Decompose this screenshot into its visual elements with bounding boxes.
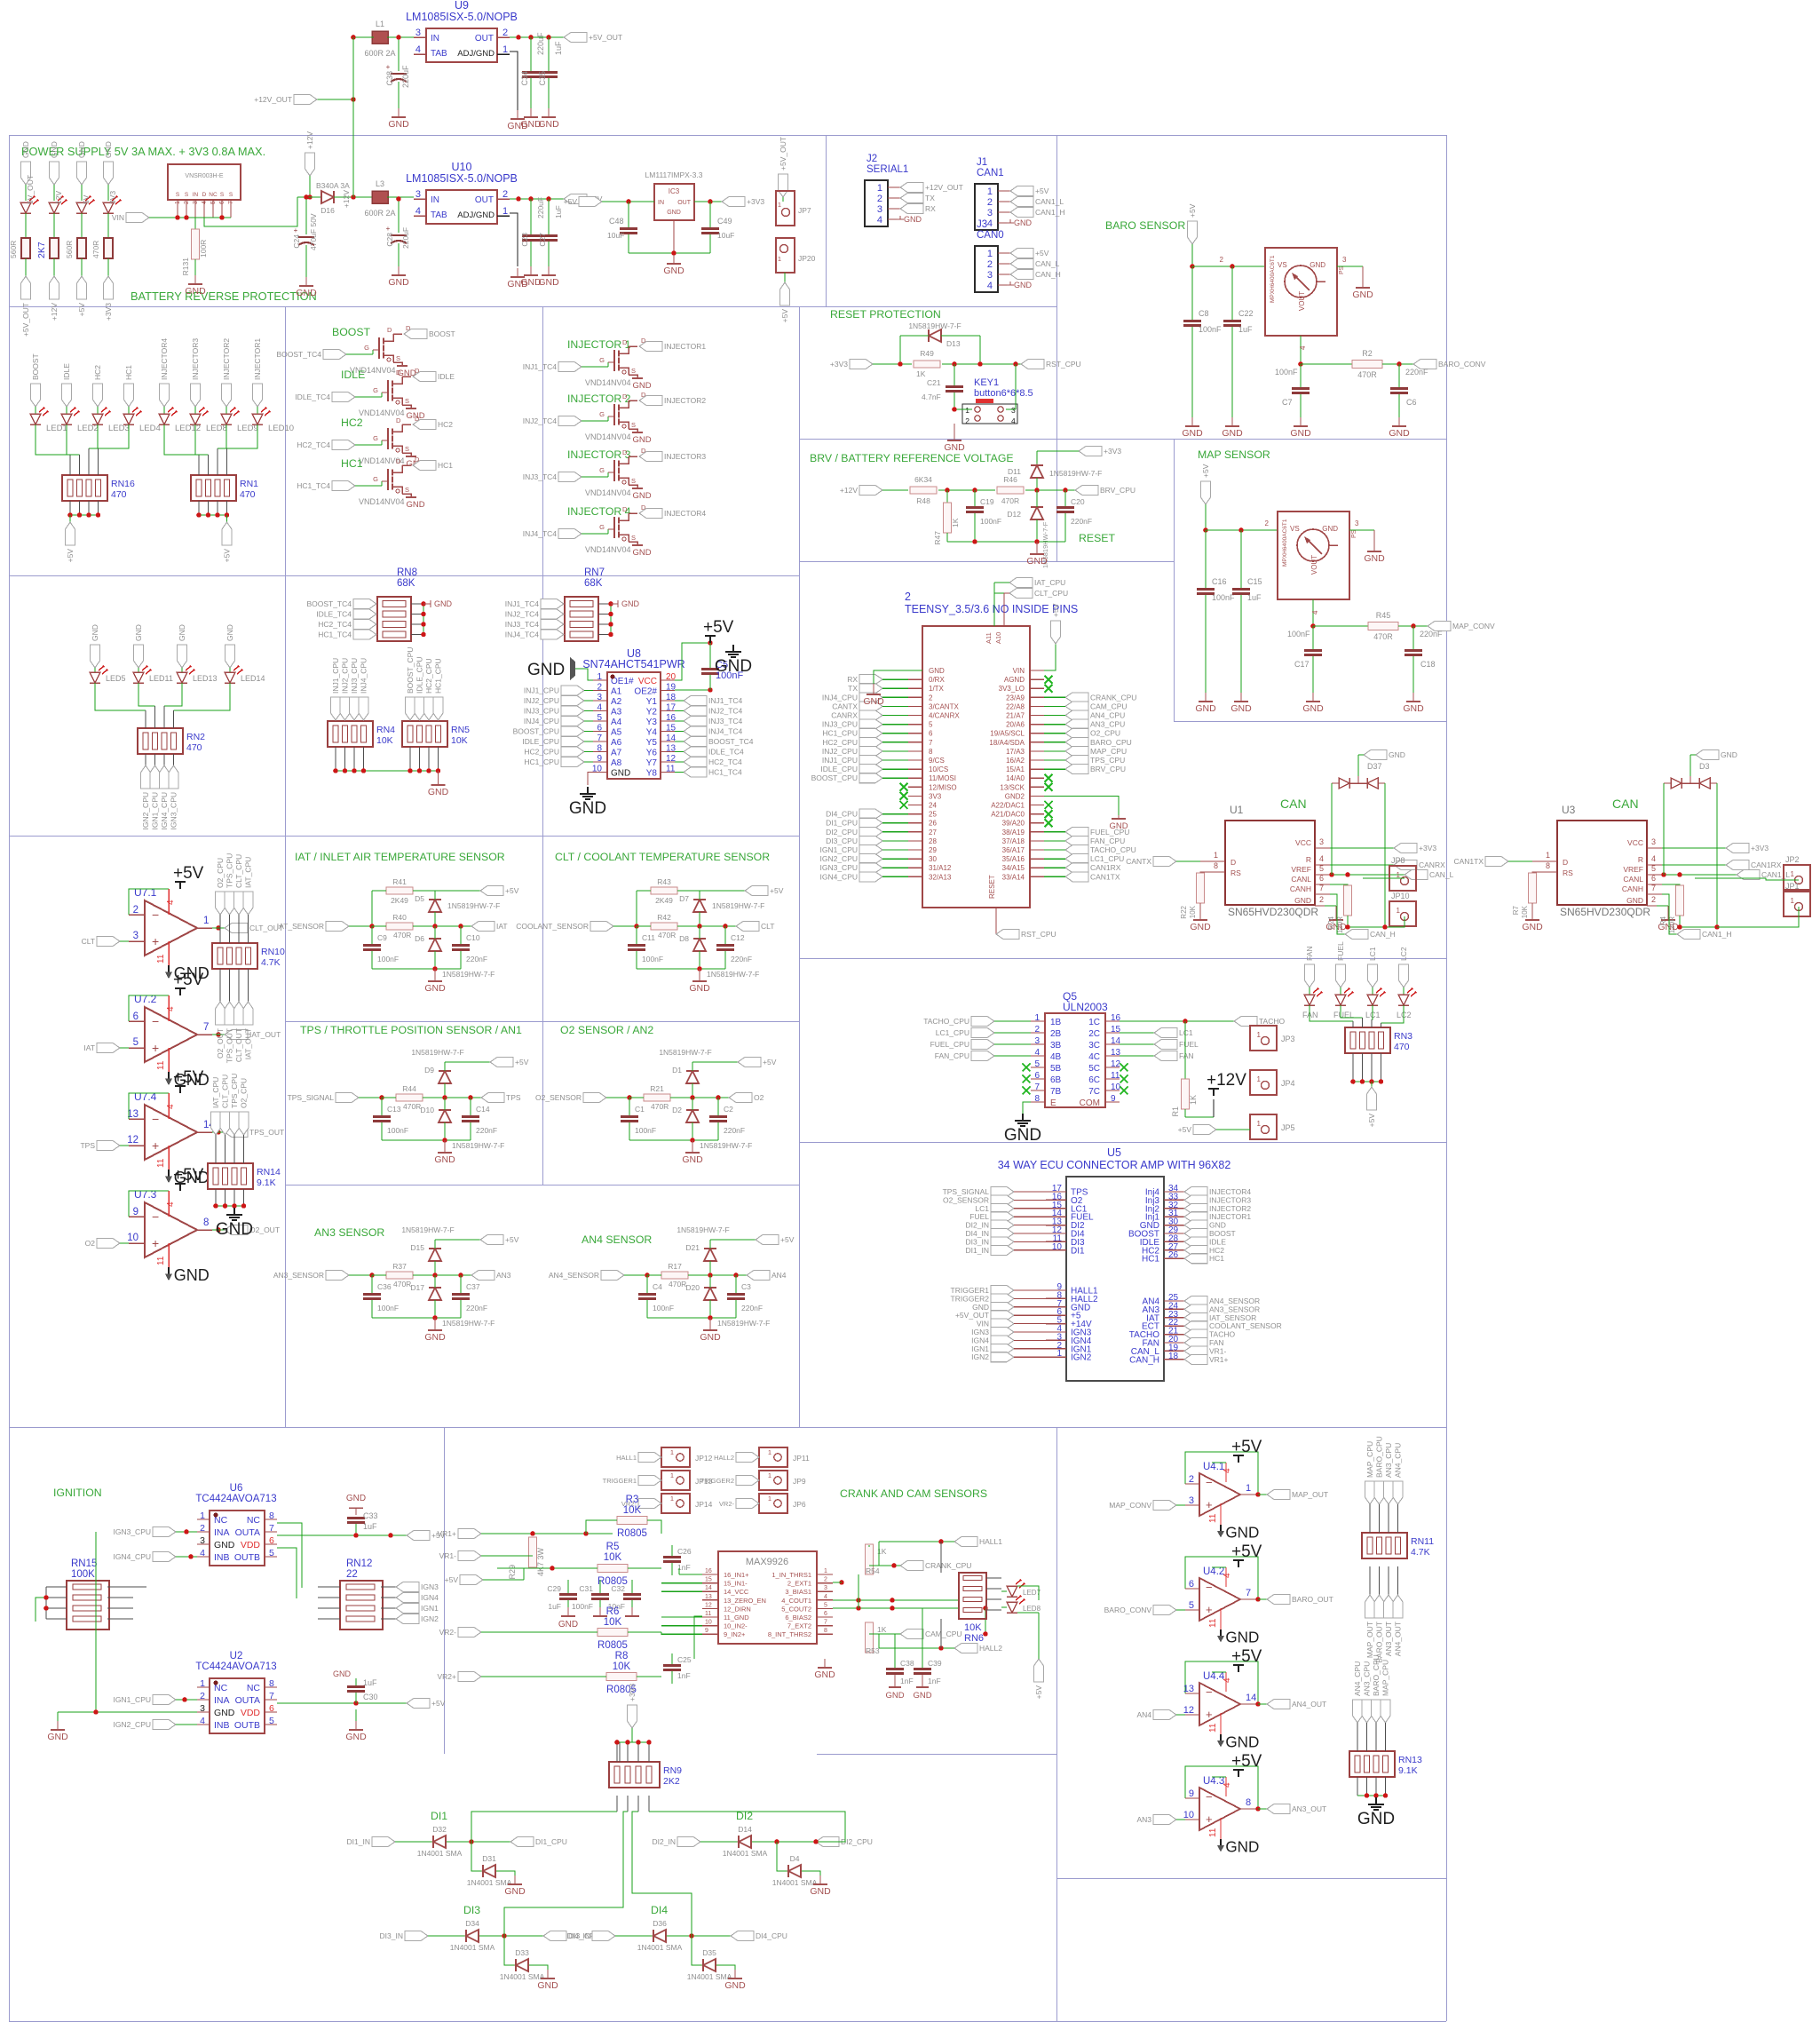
- svg-text:D: D: [396, 369, 401, 377]
- svg-text:10/CS: 10/CS: [929, 765, 948, 773]
- svg-text:PS: PS: [1351, 529, 1357, 538]
- svg-text:CLT: CLT: [761, 922, 774, 931]
- svg-text:RN1: RN1: [240, 479, 258, 489]
- svg-text:4: 4: [824, 1594, 827, 1600]
- svg-text:S: S: [405, 445, 409, 453]
- svg-text:1: 1: [987, 186, 993, 197]
- svg-text:+: +: [386, 63, 391, 71]
- svg-text:IGN3_CPU: IGN3_CPU: [170, 792, 178, 830]
- svg-text:IDLE: IDLE: [62, 363, 71, 380]
- svg-text:INJ4_TC4: INJ4_TC4: [708, 727, 743, 736]
- svg-text:7: 7: [228, 201, 234, 204]
- svg-text:CRANK_CPU: CRANK_CPU: [925, 1561, 971, 1570]
- svg-text:JP1: JP1: [1785, 882, 1800, 891]
- svg-text:4: 4: [1311, 610, 1319, 615]
- svg-text:INJ2_TC4: INJ2_TC4: [708, 707, 743, 716]
- svg-text:C39: C39: [928, 1659, 942, 1668]
- svg-text:13/SCK: 13/SCK: [1000, 783, 1025, 791]
- svg-text:26: 26: [929, 820, 937, 828]
- svg-text:AN3_CPU: AN3_CPU: [1363, 1661, 1372, 1696]
- svg-text:BRV / BATTERY REFERENCE VOLTAG: BRV / BATTERY REFERENCE VOLTAGE: [810, 452, 1014, 464]
- svg-text:6C: 6C: [1088, 1075, 1100, 1085]
- svg-text:INJ3_TC4: INJ3_TC4: [505, 620, 540, 629]
- svg-text:U2: U2: [230, 1651, 243, 1661]
- svg-text:TX: TX: [848, 684, 858, 693]
- svg-text:GND: GND: [434, 599, 453, 608]
- svg-text:CAM_CPU: CAM_CPU: [925, 1630, 962, 1638]
- svg-text:10: 10: [1183, 1810, 1194, 1820]
- svg-text:LC2: LC2: [1399, 947, 1408, 961]
- svg-text:7: 7: [1651, 884, 1656, 892]
- svg-text:R131: R131: [181, 258, 190, 276]
- svg-text:D33: D33: [515, 1948, 529, 1957]
- svg-text:GND: GND: [1352, 289, 1373, 300]
- svg-text:VND14NV04: VND14NV04: [585, 488, 631, 497]
- svg-text:470R: 470R: [651, 1102, 669, 1111]
- svg-text:R24: R24: [1327, 916, 1335, 929]
- svg-text:D3: D3: [1699, 762, 1710, 771]
- svg-text:button6*6*8.5: button6*6*8.5: [974, 388, 1033, 399]
- svg-text:GND: GND: [388, 277, 409, 288]
- svg-text:IAT_CPU: IAT_CPU: [244, 857, 253, 888]
- svg-text:470uF 50V: 470uF 50V: [309, 213, 318, 250]
- svg-text:C20: C20: [1071, 497, 1085, 506]
- svg-text:INJ1_TC4: INJ1_TC4: [708, 696, 743, 705]
- svg-text:3V3: 3V3: [929, 792, 942, 800]
- svg-text:HC2_TC4: HC2_TC4: [708, 757, 742, 766]
- svg-text:D: D: [396, 416, 401, 424]
- svg-text:4.7nF: 4.7nF: [922, 393, 941, 401]
- svg-text:+3V3: +3V3: [628, 1684, 637, 1701]
- svg-text:3C: 3C: [1088, 1041, 1100, 1051]
- svg-text:IN: IN: [658, 200, 664, 206]
- svg-text:SN74AHCT541PWR: SN74AHCT541PWR: [582, 658, 684, 670]
- svg-text:+5V: +5V: [173, 971, 204, 989]
- svg-text:G: G: [364, 344, 369, 352]
- svg-text:10: 10: [127, 1233, 138, 1243]
- svg-text:RN6: RN6: [964, 1633, 984, 1644]
- svg-text:560R: 560R: [65, 241, 74, 258]
- svg-text:2: 2: [987, 197, 993, 208]
- svg-text:3: 3: [415, 28, 421, 38]
- svg-text:U1: U1: [1230, 804, 1244, 816]
- svg-text:BOOST_TC4: BOOST_TC4: [276, 350, 321, 359]
- svg-text:IN: IN: [193, 192, 199, 198]
- svg-text:+5V: +5V: [173, 1068, 204, 1087]
- svg-text:SN65HVD230QDR: SN65HVD230QDR: [1228, 906, 1318, 918]
- svg-text:1K: 1K: [877, 1625, 887, 1634]
- svg-text:FAN: FAN: [1302, 1011, 1318, 1019]
- svg-text:25: 25: [929, 811, 937, 819]
- svg-text:INJ1_CPU: INJ1_CPU: [822, 756, 858, 765]
- svg-text:INJECTOR3: INJECTOR3: [664, 452, 706, 461]
- svg-text:BARO SENSOR: BARO SENSOR: [1105, 219, 1185, 232]
- svg-text:AN3: AN3: [1136, 1815, 1151, 1824]
- svg-text:HC1_TC4: HC1_TC4: [708, 768, 742, 777]
- svg-text:TRIGGER2: TRIGGER2: [700, 1477, 734, 1485]
- svg-text:RN7: RN7: [584, 567, 605, 578]
- svg-text:+: +: [152, 1041, 159, 1055]
- svg-text:5V_OUT: 5V_OUT: [26, 175, 35, 204]
- svg-text:C25: C25: [677, 1655, 692, 1664]
- svg-text:DI1: DI1: [431, 1810, 447, 1822]
- svg-text:8_INT_THRS2: 8_INT_THRS2: [768, 1630, 811, 1638]
- svg-text:7: 7: [1246, 1588, 1251, 1598]
- svg-text:39/A20: 39/A20: [1002, 820, 1025, 828]
- svg-text:4K7 3W: 4K7 3W: [536, 1547, 545, 1576]
- svg-text:10_IN2-: 10_IN2-: [724, 1622, 748, 1630]
- svg-text:19/A5/SCL: 19/A5/SCL: [990, 730, 1025, 738]
- svg-text:1N5819HW-7-F: 1N5819HW-7-F: [442, 970, 495, 979]
- svg-text:O2: O2: [85, 1239, 96, 1248]
- svg-text:D1: D1: [672, 1066, 682, 1074]
- svg-text:LED2: LED2: [77, 424, 99, 433]
- svg-text:IDLE: IDLE: [438, 372, 455, 381]
- svg-text:1K: 1K: [951, 518, 960, 527]
- svg-text:+12V: +12V: [342, 190, 351, 208]
- svg-text:7: 7: [824, 1620, 827, 1626]
- svg-text:GND: GND: [1014, 281, 1033, 289]
- svg-text:14: 14: [705, 1585, 712, 1591]
- svg-text:RN13: RN13: [1398, 1755, 1422, 1765]
- svg-text:OE1#: OE1#: [611, 677, 634, 686]
- svg-text:IGN1: IGN1: [421, 1604, 439, 1613]
- svg-text:14: 14: [1246, 1693, 1256, 1703]
- svg-text:LED9: LED9: [237, 424, 258, 433]
- svg-text:1: 1: [778, 201, 781, 209]
- svg-text:5: 5: [929, 721, 933, 729]
- svg-text:IAT_OUT: IAT_OUT: [249, 1030, 281, 1039]
- svg-text:C4: C4: [653, 1282, 662, 1291]
- svg-text:NC: NC: [209, 192, 218, 198]
- svg-text:RN16: RN16: [111, 479, 135, 489]
- svg-text:GND: GND: [406, 500, 424, 510]
- svg-text:GND: GND: [1026, 556, 1048, 567]
- svg-text:CAN_H: CAN_H: [1035, 270, 1061, 279]
- svg-text:RST_CPU: RST_CPU: [1046, 360, 1081, 369]
- svg-text:S: S: [405, 397, 409, 405]
- svg-text:INJECTOR 1: INJECTOR 1: [567, 338, 631, 351]
- svg-text:C37: C37: [466, 1282, 480, 1291]
- svg-text:+5V: +5V: [1035, 186, 1049, 195]
- svg-text:SN65HVD230QDR: SN65HVD230QDR: [1560, 906, 1650, 918]
- svg-text:6: 6: [133, 1011, 138, 1022]
- svg-text:NC: NC: [247, 1683, 261, 1693]
- svg-text:+5V: +5V: [780, 309, 789, 323]
- svg-text:1: 1: [1397, 907, 1401, 915]
- svg-text:2: 2: [987, 259, 993, 270]
- svg-text:+5V: +5V: [1231, 1752, 1262, 1771]
- svg-text:HC2: HC2: [438, 420, 453, 429]
- svg-text:VR2+: VR2+: [438, 1672, 457, 1681]
- svg-text:1: 1: [502, 206, 508, 217]
- svg-text:CLT: CLT: [82, 937, 95, 946]
- svg-text:IGN3: IGN3: [421, 1582, 439, 1591]
- svg-text:MPXH6400AC6T1: MPXH6400AC6T1: [1270, 255, 1276, 303]
- svg-text:1N5819HW-7-F: 1N5819HW-7-F: [659, 1048, 711, 1057]
- svg-text:1: 1: [768, 1471, 772, 1479]
- svg-text:J3: J3: [977, 219, 987, 230]
- svg-text:−: −: [1206, 1476, 1213, 1489]
- svg-text:100nF: 100nF: [980, 517, 1001, 526]
- svg-text:GND: GND: [689, 983, 710, 994]
- svg-text:GND: GND: [104, 141, 113, 158]
- svg-text:12: 12: [1183, 1705, 1194, 1716]
- svg-text:9: 9: [705, 1628, 708, 1634]
- svg-text:HC2_TC4: HC2_TC4: [297, 440, 330, 449]
- svg-text:8: 8: [1214, 861, 1218, 870]
- svg-text:1N4001 SMA: 1N4001 SMA: [637, 1943, 683, 1952]
- svg-text:VCC: VCC: [1627, 838, 1643, 847]
- svg-text:IGN4_CPU: IGN4_CPU: [819, 872, 858, 881]
- svg-text:HALL1: HALL1: [979, 1537, 1002, 1546]
- svg-text:7C: 7C: [1088, 1087, 1100, 1097]
- svg-text:A4: A4: [611, 718, 622, 727]
- svg-text:+5V: +5V: [770, 886, 784, 895]
- svg-text:A10: A10: [994, 632, 1002, 644]
- svg-text:+: +: [1206, 1708, 1213, 1721]
- svg-text:470R: 470R: [669, 1280, 686, 1289]
- svg-text:AN3_OUT: AN3_OUT: [1384, 1622, 1393, 1656]
- svg-text:28: 28: [929, 837, 937, 845]
- svg-text:LED14: LED14: [241, 674, 265, 683]
- svg-text:SERIAL1: SERIAL1: [866, 164, 908, 175]
- svg-text:1: 1: [1791, 897, 1795, 905]
- svg-text:GND: GND: [569, 799, 606, 818]
- svg-text:+3V3: +3V3: [1104, 447, 1121, 456]
- svg-text:+3V3: +3V3: [747, 197, 764, 206]
- svg-text:100nF: 100nF: [1212, 593, 1235, 602]
- svg-text:−: −: [152, 908, 159, 922]
- svg-text:13: 13: [1183, 1684, 1194, 1694]
- svg-text:35/A16: 35/A16: [1002, 855, 1025, 863]
- svg-text:C34: C34: [520, 71, 529, 86]
- svg-text:GND: GND: [1290, 428, 1311, 439]
- svg-text:IAT_CPU: IAT_CPU: [1034, 578, 1065, 587]
- svg-text:4: 4: [1223, 1468, 1232, 1473]
- svg-text:HC2: HC2: [341, 416, 363, 429]
- svg-text:+5V: +5V: [763, 1058, 777, 1067]
- svg-text:−: −: [152, 1209, 159, 1224]
- svg-text:TACHO_CPU: TACHO_CPU: [1090, 845, 1136, 854]
- svg-text:JP2: JP2: [1785, 855, 1800, 864]
- svg-text:DI1_CPU: DI1_CPU: [535, 1837, 567, 1846]
- svg-text:AN3: AN3: [496, 1271, 511, 1280]
- svg-text:GND: GND: [214, 1708, 235, 1718]
- svg-text:3_BIAS1: 3_BIAS1: [785, 1588, 811, 1596]
- svg-text:27: 27: [929, 829, 937, 837]
- svg-text:12_DIRN: 12_DIRN: [724, 1605, 751, 1613]
- svg-text:+: +: [1206, 1603, 1213, 1616]
- svg-text:LED10: LED10: [268, 424, 294, 433]
- svg-text:100nF: 100nF: [377, 1304, 399, 1312]
- svg-text:FUEL: FUEL: [1179, 1040, 1199, 1049]
- svg-text:MPXH6400AC6T1: MPXH6400AC6T1: [1282, 519, 1288, 567]
- svg-text:C11: C11: [642, 933, 655, 942]
- svg-text:600R 2A: 600R 2A: [364, 209, 395, 218]
- svg-text:15_IN1-: 15_IN1-: [724, 1580, 748, 1588]
- svg-text:GND: GND: [527, 661, 565, 679]
- svg-text:470R: 470R: [393, 931, 411, 940]
- svg-text:11: 11: [156, 1158, 166, 1168]
- svg-text:INJECTOR4: INJECTOR4: [664, 509, 706, 518]
- svg-text:HC2_CPU: HC2_CPU: [424, 658, 433, 694]
- svg-text:1: 1: [768, 1448, 772, 1456]
- svg-text:A6: A6: [611, 738, 622, 748]
- svg-text:100nF: 100nF: [377, 955, 399, 963]
- svg-text:TC4424AVOA713: TC4424AVOA713: [195, 1494, 276, 1504]
- svg-text:C14: C14: [476, 1105, 490, 1114]
- svg-text:11: 11: [156, 954, 166, 963]
- svg-text:GND: GND: [913, 1691, 931, 1701]
- svg-text:IDLE_CPU: IDLE_CPU: [522, 737, 559, 746]
- svg-text:100nF: 100nF: [635, 1126, 656, 1135]
- svg-text:2: 2: [824, 1577, 827, 1583]
- svg-text:VND14NV04: VND14NV04: [585, 378, 631, 387]
- svg-text:470R: 470R: [91, 241, 100, 258]
- svg-text:BOOST: BOOST: [429, 329, 455, 338]
- svg-text:11: 11: [1208, 1723, 1218, 1733]
- svg-text:BOOST_CPU: BOOST_CPU: [811, 773, 858, 782]
- svg-text:D: D: [1230, 858, 1236, 867]
- svg-text:Y5: Y5: [646, 738, 658, 748]
- svg-text:C15: C15: [1247, 577, 1262, 586]
- svg-text:S: S: [220, 192, 225, 198]
- svg-text:1N4001 SMA: 1N4001 SMA: [723, 1849, 768, 1858]
- svg-text:C38: C38: [900, 1659, 914, 1668]
- svg-text:GND: GND: [558, 1620, 578, 1630]
- svg-text:1N5819HW-7-F: 1N5819HW-7-F: [707, 970, 759, 979]
- svg-text:220nF: 220nF: [466, 1304, 487, 1312]
- svg-text:LED3: LED3: [108, 424, 130, 433]
- svg-text:TACHO: TACHO: [1259, 1017, 1286, 1026]
- svg-text:14/A0: 14/A0: [1006, 774, 1025, 782]
- svg-text:GND: GND: [632, 435, 651, 445]
- svg-text:AGND: AGND: [1004, 676, 1025, 684]
- svg-text:O2_OUT: O2_OUT: [216, 1028, 225, 1059]
- svg-text:OUTA: OUTA: [235, 1527, 260, 1538]
- svg-text:D: D: [1563, 858, 1568, 867]
- svg-text:RX: RX: [847, 675, 858, 684]
- svg-text:GND: GND: [663, 266, 684, 276]
- svg-text:220uF: 220uF: [401, 227, 410, 249]
- svg-text:GND: GND: [47, 1732, 68, 1742]
- svg-text:CLT_CPU: CLT_CPU: [1034, 589, 1068, 598]
- svg-text:VDD: VDD: [241, 1708, 261, 1718]
- svg-text:+5V: +5V: [1051, 603, 1060, 617]
- svg-text:CAN0: CAN0: [977, 230, 1004, 241]
- svg-text:7: 7: [1319, 884, 1324, 892]
- svg-text:MAP_CPU: MAP_CPU: [1090, 747, 1127, 756]
- svg-text:HC2_CPU: HC2_CPU: [822, 738, 858, 747]
- svg-text:MAP_OUT: MAP_OUT: [1365, 1622, 1374, 1658]
- svg-text:470R: 470R: [1357, 370, 1377, 379]
- svg-text:INJ1_TC4: INJ1_TC4: [505, 599, 540, 608]
- svg-text:220nF: 220nF: [1405, 368, 1428, 377]
- svg-text:IAT: IAT: [496, 922, 508, 931]
- svg-text:GND: GND: [1225, 1838, 1259, 1855]
- svg-text:GND: GND: [77, 141, 86, 158]
- svg-text:RN12: RN12: [346, 1558, 372, 1569]
- svg-text:+: +: [152, 1138, 159, 1153]
- svg-text:DI3_IN: DI3_IN: [380, 1931, 403, 1940]
- svg-text:6B: 6B: [1050, 1075, 1062, 1085]
- svg-text:100nF: 100nF: [1275, 368, 1298, 377]
- svg-text:8: 8: [824, 1628, 827, 1634]
- svg-text:MAP SENSOR: MAP SENSOR: [1198, 448, 1270, 461]
- svg-text:21/A7: 21/A7: [1006, 712, 1025, 720]
- svg-text:LC1_CPU: LC1_CPU: [936, 1028, 969, 1037]
- svg-text:+5V: +5V: [703, 618, 734, 637]
- svg-text:S: S: [631, 477, 636, 485]
- svg-text:VNSR003H-E: VNSR003H-E: [185, 173, 224, 179]
- svg-text:RN8: RN8: [397, 567, 417, 578]
- svg-text:16_IN1+: 16_IN1+: [724, 1571, 749, 1579]
- svg-text:4: 4: [1223, 1782, 1232, 1788]
- svg-text:GND: GND: [1294, 896, 1311, 905]
- svg-text:INJ1_CPU: INJ1_CPU: [524, 686, 559, 695]
- svg-text:D: D: [202, 192, 207, 198]
- svg-text:+5V: +5V: [564, 197, 578, 206]
- svg-text:D13: D13: [946, 339, 961, 348]
- svg-text:2: 2: [1319, 895, 1324, 904]
- svg-text:1: 1: [768, 1495, 772, 1503]
- svg-text:1N5819HW-7-F: 1N5819HW-7-F: [717, 1319, 770, 1328]
- svg-text:IGN1_CPU: IGN1_CPU: [113, 1695, 151, 1704]
- svg-text:TPS: TPS: [80, 1141, 95, 1150]
- svg-text:1: 1: [670, 1495, 674, 1503]
- svg-text:GND: GND: [538, 119, 559, 130]
- svg-text:AN3 SENSOR: AN3 SENSOR: [314, 1226, 384, 1239]
- svg-text:S: S: [631, 534, 636, 542]
- svg-text:IDLE_TC4: IDLE_TC4: [316, 610, 352, 619]
- svg-text:DI2_CPU: DI2_CPU: [826, 828, 858, 837]
- svg-text:+5V_OUT: +5V_OUT: [589, 33, 622, 42]
- svg-text:VOUT: VOUT: [1298, 291, 1306, 311]
- svg-text:GND: GND: [507, 279, 528, 289]
- svg-text:D4: D4: [790, 1854, 800, 1863]
- svg-text:3: 3: [193, 201, 199, 204]
- svg-text:1: 1: [824, 1568, 827, 1574]
- svg-text:COM: COM: [1080, 1098, 1100, 1108]
- svg-text:1: 1: [877, 183, 882, 194]
- svg-text:JP9: JP9: [793, 1477, 806, 1486]
- svg-text:5B: 5B: [1050, 1064, 1062, 1074]
- svg-text:1: 1: [1257, 1031, 1262, 1039]
- svg-text:3: 3: [824, 1585, 827, 1591]
- svg-text:12/MISO: 12/MISO: [929, 783, 957, 791]
- svg-text:470R: 470R: [1001, 496, 1019, 505]
- svg-text:D7: D7: [679, 894, 689, 903]
- svg-text:D37: D37: [1367, 762, 1382, 771]
- svg-text:2: 2: [965, 416, 969, 425]
- svg-text:8: 8: [1546, 861, 1550, 870]
- svg-text:TRIGGER1: TRIGGER1: [603, 1477, 637, 1485]
- svg-text:1N5819HW-7-F: 1N5819HW-7-F: [401, 1225, 454, 1234]
- svg-text:5: 5: [1651, 864, 1656, 873]
- svg-text:GND: GND: [50, 141, 59, 158]
- svg-text:1uF: 1uF: [363, 1522, 377, 1531]
- svg-text:INJ3_TC4: INJ3_TC4: [708, 717, 743, 726]
- svg-text:RN2: RN2: [186, 732, 205, 742]
- svg-text:VCC: VCC: [1295, 838, 1311, 847]
- svg-text:INJ2_CPU: INJ2_CPU: [341, 658, 350, 694]
- svg-text:INJ3_CPU: INJ3_CPU: [350, 658, 359, 694]
- svg-text:JP11: JP11: [793, 1454, 810, 1463]
- svg-text:9/CS: 9/CS: [929, 757, 945, 765]
- svg-text:MAP_CPU: MAP_CPU: [1381, 1660, 1390, 1696]
- svg-text:R: R: [1638, 855, 1643, 864]
